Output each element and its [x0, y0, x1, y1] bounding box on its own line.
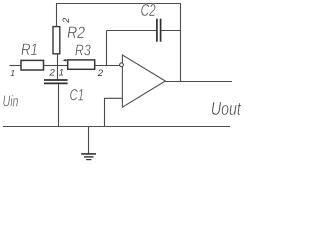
wire R3 to inverting input node B: [95, 65, 120, 67]
op-amp U1: [122, 55, 165, 107]
wire node A to R3: [58, 65, 68, 67]
node B vertical wire up to C2: [106, 31, 108, 66]
node Uout label: [211, 98, 242, 119]
node A vertical wire (R2 / C1 junction): [57, 54, 59, 80]
svg-text:2: 2: [61, 18, 71, 24]
wire feedback vertical (top rail to output): [180, 3, 182, 82]
pin 1 of R3: [59, 67, 64, 78]
wire top rail (R2/output feedback net): [56, 3, 181, 5]
svg-text:2: 2: [97, 68, 104, 79]
pin 1 of R1: [10, 68, 15, 78]
wire R1 to node A: [44, 65, 58, 67]
ground stem: [88, 127, 90, 154]
resistor R3: [68, 42, 95, 69]
pin 2 of R1: [49, 67, 56, 78]
ground: [81, 154, 96, 160]
node Uin label: [3, 93, 19, 110]
pin 2 of R2 (rotated): [61, 18, 71, 24]
resistor R1: [21, 41, 44, 70]
svg-text:R3: R3: [75, 42, 91, 59]
wire non-inverting input of U1: [105, 98, 123, 126]
inverting input bubble of U1: [120, 63, 124, 67]
wire C1 bottom stem to ground rail: [58, 84, 60, 126]
wire R2 top stem: [56, 3, 58, 27]
svg-text:C1: C1: [70, 86, 84, 104]
capacitor C2: [141, 0, 161, 42]
svg-text:Uout: Uout: [211, 98, 242, 119]
resistor R2: [53, 24, 85, 54]
arrow on R3 (adjustment arrow): [62, 59, 68, 62]
svg-text:R2: R2: [67, 24, 85, 42]
svg-text:1: 1: [10, 68, 15, 78]
wire input left segment: [10, 65, 22, 67]
capacitor C1: [44, 80, 84, 104]
svg-text:1: 1: [59, 67, 64, 78]
wire C2 right plate to feedback vertical: [161, 30, 180, 32]
wire output of U1: [165, 81, 232, 83]
svg-text:C2: C2: [141, 0, 156, 20]
svg-text:Uin: Uin: [3, 93, 19, 110]
pin 2 of R3: [97, 68, 104, 79]
svg-text:R1: R1: [21, 41, 38, 59]
wire bottom ground rail: [3, 126, 230, 128]
wire node B to C2 left plate: [107, 30, 157, 32]
svg-text:2: 2: [49, 67, 56, 78]
